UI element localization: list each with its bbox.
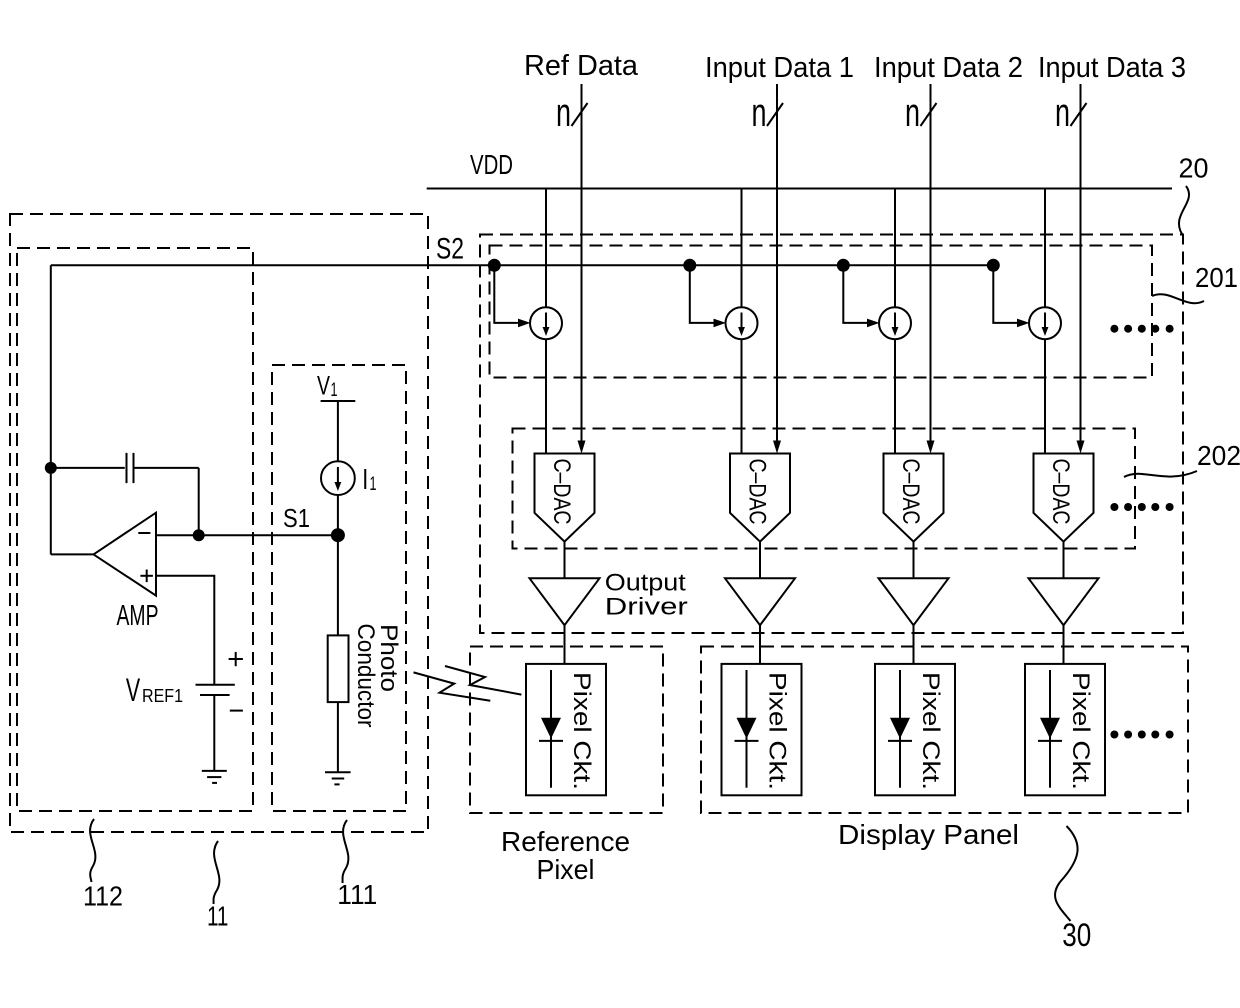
svg-text:30: 30 (1062, 917, 1091, 953)
svg-text:Display Panel: Display Panel (838, 819, 1019, 850)
svg-text:202: 202 (1197, 440, 1240, 471)
svg-text:V: V (317, 371, 330, 401)
svg-text:Conductor: Conductor (352, 624, 379, 728)
svg-text:Ref Data: Ref Data (524, 50, 639, 82)
svg-text:S1: S1 (283, 503, 310, 533)
svg-text:Output: Output (605, 569, 686, 596)
svg-text:20: 20 (1179, 153, 1209, 184)
svg-text:S2: S2 (436, 233, 464, 266)
svg-text:I: I (362, 464, 368, 496)
svg-text:Driver: Driver (605, 593, 688, 620)
svg-text:V: V (126, 672, 141, 708)
svg-text:111: 111 (337, 879, 377, 910)
svg-text:AMP: AMP (117, 600, 159, 632)
svg-text:Input Data 3: Input Data 3 (1038, 52, 1186, 84)
svg-text:112: 112 (83, 881, 123, 912)
svg-text:Reference: Reference (501, 826, 630, 857)
svg-text:VDD: VDD (470, 149, 513, 180)
svg-text:Input Data 1: Input Data 1 (705, 52, 854, 84)
svg-text:Input Data 2: Input Data 2 (874, 52, 1023, 84)
svg-text:1: 1 (370, 474, 377, 495)
svg-text:Pixel: Pixel (537, 854, 595, 885)
svg-text:11: 11 (207, 901, 229, 932)
svg-text:REF1: REF1 (142, 685, 183, 706)
svg-text:1: 1 (331, 380, 338, 401)
svg-text:201: 201 (1195, 262, 1238, 293)
